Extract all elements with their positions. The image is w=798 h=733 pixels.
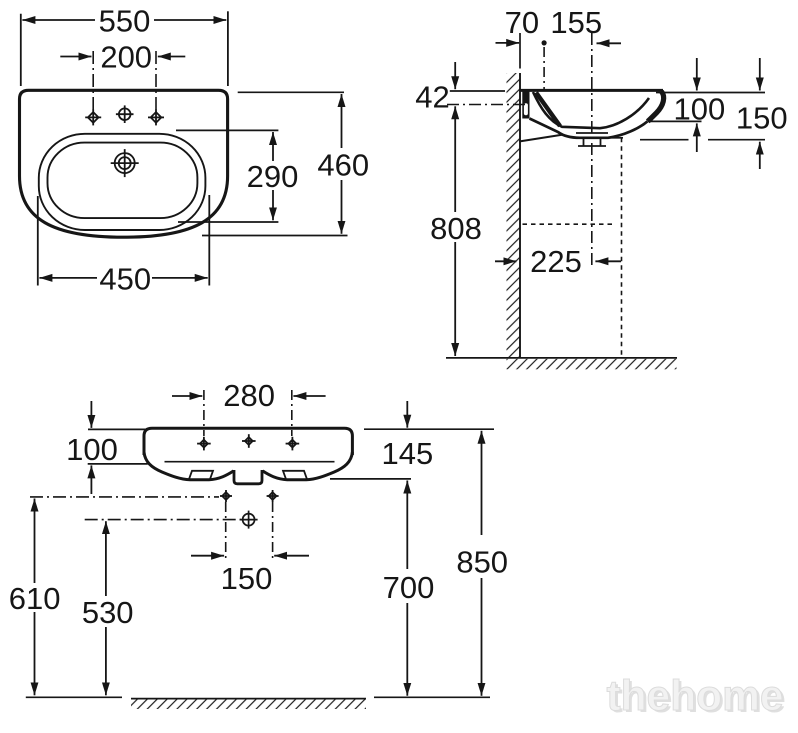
floor line front right [374, 696, 490, 698]
front faucet hole center [242, 434, 256, 448]
svg-text:100: 100 [66, 432, 118, 467]
dimension 808 [454, 133, 456, 356]
svg-text:610: 610 [9, 581, 61, 616]
svg-text:70: 70 [505, 5, 539, 40]
faucet hole plan left [85, 109, 101, 125]
dimension 150 front [191, 555, 309, 557]
svg-text:850: 850 [456, 544, 508, 579]
faucet axis dash-dot side [543, 47, 545, 90]
dimension 550 [21, 11, 228, 86]
floor hatch side [507, 359, 677, 370]
front faucet hole right [286, 437, 300, 451]
faucet hole plan right [148, 109, 164, 125]
faucet axis dash-dot front right [291, 390, 293, 436]
side drain tailpiece [576, 133, 608, 146]
svg-text:150: 150 [736, 101, 788, 136]
mount hole left [220, 490, 232, 502]
side profile bowl exterior [530, 119, 648, 138]
side profile right rim hook [648, 92, 664, 122]
dimension 200 [60, 56, 185, 58]
leader 100 bottom [648, 120, 702, 122]
svg-text:145: 145 [382, 436, 434, 471]
faucet axis dash-dot right [155, 51, 157, 112]
dimension 450 [38, 195, 210, 286]
basin outer oval [39, 134, 206, 230]
hidden trap dashed vertical [621, 138, 623, 357]
front drain box [234, 470, 262, 484]
floor line side [446, 357, 677, 359]
dimension 610 [34, 499, 36, 696]
dimension 150 side [759, 58, 761, 169]
front left foot [189, 471, 213, 479]
side bracket tab [522, 91, 529, 119]
side bracket hole [524, 103, 528, 115]
dimension 850 [481, 431, 483, 696]
plan sink outline [20, 90, 228, 237]
dimension 460 [341, 94, 343, 234]
dimension 70 [496, 42, 520, 44]
dimension 100 front [90, 401, 92, 494]
front apron line [165, 461, 335, 463]
svg-text:450: 450 [99, 261, 151, 296]
front sink body [144, 428, 352, 455]
side profile bowl interior [533, 92, 649, 128]
floor line front left [26, 696, 122, 698]
leader 460 bottom [202, 235, 348, 237]
svg-text:42: 42 [415, 79, 449, 114]
svg-text:550: 550 [99, 4, 151, 39]
drain axis dash-dot side [591, 33, 593, 267]
mount axis vertical left [225, 502, 227, 559]
dimension 155 [597, 42, 622, 44]
dimension 700 [406, 481, 408, 696]
leader 100f top [88, 428, 146, 430]
mount holes axis dash-dot h2 [85, 519, 241, 521]
dimension 42 [454, 62, 456, 133]
svg-text:155: 155 [550, 5, 602, 40]
leader 42 rim [450, 90, 505, 92]
front underside outline [144, 452, 352, 480]
dimension 290 [272, 132, 274, 220]
leader 460 top [238, 91, 344, 93]
svg-text:808: 808 [430, 211, 482, 246]
faucet axis dash-dot left [92, 51, 94, 112]
svg-text:thehome: thehome [606, 673, 783, 720]
center hole symbol [240, 511, 258, 529]
dimension 280 [172, 395, 326, 397]
hidden pedestal dashed horizontal [523, 223, 616, 225]
svg-text:225: 225 [530, 244, 582, 279]
drain symbol [111, 149, 139, 177]
svg-text:200: 200 [100, 40, 152, 75]
dimension 530 [105, 521, 107, 695]
side profile rim [520, 89, 663, 92]
leader 150 bottom [607, 138, 765, 140]
leader 100 top (rim right) [656, 92, 765, 94]
leader 290 top [176, 129, 278, 131]
leader 100f bottom [88, 463, 148, 465]
faucet axis dash-dot front left [203, 390, 205, 436]
svg-text:290: 290 [247, 159, 299, 194]
leader 145 bottom [330, 478, 411, 480]
front right foot [283, 471, 307, 479]
svg-text:700: 700 [383, 570, 435, 605]
wall line [519, 33, 521, 69]
front faucet hole left [197, 437, 211, 451]
faucet axis dot [542, 40, 547, 45]
dimension 225 [495, 260, 621, 262]
mount axis vertical right [272, 502, 274, 559]
svg-text:530: 530 [82, 595, 134, 630]
mount axis dash-dot 42 [447, 104, 526, 106]
basin inner oval [48, 143, 198, 219]
mount holes axis dash-dot h1 [30, 496, 219, 498]
watermark thehome [606, 673, 786, 722]
side profile backsplash band [536, 93, 560, 127]
leader 145 top [364, 428, 494, 430]
svg-text:280: 280 [223, 378, 275, 413]
leader 290 bottom [178, 221, 278, 223]
dimension 100 side [696, 58, 698, 152]
wall hatch [507, 73, 521, 358]
mount hole right [267, 490, 279, 502]
svg-text:460: 460 [317, 147, 369, 182]
faucet hole plan center [116, 105, 134, 123]
svg-text:100: 100 [674, 91, 726, 126]
side support bracket line [519, 135, 562, 142]
dimension 145 [406, 401, 408, 428]
floor hatch front [131, 699, 366, 709]
svg-text:150: 150 [221, 561, 273, 596]
